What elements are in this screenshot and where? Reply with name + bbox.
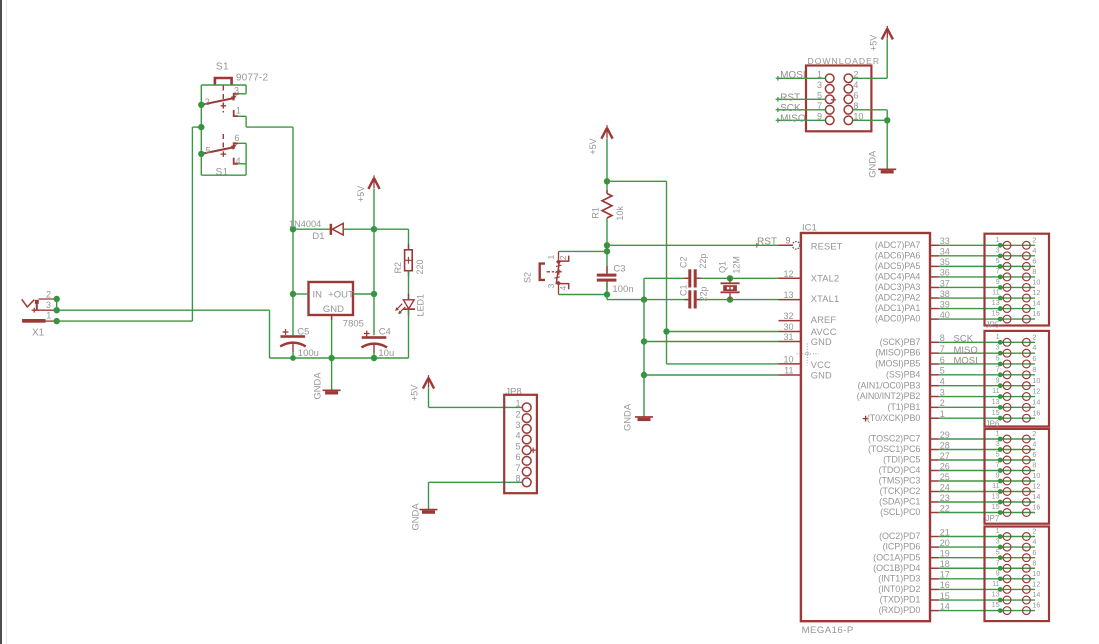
svg-text:3: 3 — [996, 537, 1000, 546]
svg-text:29: 29 — [940, 430, 950, 440]
svg-text:32: 32 — [783, 311, 793, 321]
svg-text:8: 8 — [940, 333, 945, 343]
svg-text:(AIN0/INT2)PB2: (AIN0/INT2)PB2 — [857, 391, 921, 401]
svg-text:C3: C3 — [613, 264, 625, 275]
svg-text:(SDA)PC1: (SDA)PC1 — [879, 497, 920, 507]
svg-text:22p: 22p — [699, 286, 709, 301]
svg-text:(ADC3)PA3: (ADC3)PA3 — [875, 282, 921, 292]
svg-text:36: 36 — [940, 268, 950, 278]
svg-text:13: 13 — [992, 397, 1000, 406]
svg-text:3: 3 — [996, 245, 1000, 254]
svg-text:7: 7 — [996, 364, 1000, 373]
svg-text:GND: GND — [811, 337, 832, 347]
svg-text:DOWNLOADER: DOWNLOADER — [808, 56, 881, 66]
svg-text:4: 4 — [558, 286, 568, 291]
svg-text:(TMS)PC3: (TMS)PC3 — [879, 476, 921, 486]
svg-text:11: 11 — [992, 288, 999, 297]
svg-text:+OUT: +OUT — [328, 289, 354, 300]
svg-text:2: 2 — [46, 289, 51, 299]
svg-text:12: 12 — [1032, 288, 1040, 297]
svg-text:3: 3 — [817, 80, 822, 90]
svg-text:13: 13 — [992, 298, 1000, 307]
svg-text:(TCK)PC2: (TCK)PC2 — [880, 486, 921, 496]
svg-text:+5V: +5V — [588, 138, 598, 154]
svg-text:7: 7 — [996, 558, 1000, 567]
svg-text:22: 22 — [940, 503, 950, 513]
svg-text:(ADC0)PA0: (ADC0)PA0 — [875, 314, 921, 324]
svg-text:(TDI)PC5: (TDI)PC5 — [883, 455, 920, 465]
svg-text:23: 23 — [940, 493, 950, 503]
svg-text:(ICP)PD6: (ICP)PD6 — [883, 542, 921, 552]
svg-text:AREF: AREF — [811, 315, 837, 325]
svg-text:GND: GND — [323, 304, 344, 315]
svg-text:14: 14 — [1032, 492, 1040, 501]
svg-text:RST: RST — [757, 237, 777, 248]
svg-text:C1: C1 — [679, 284, 689, 296]
svg-text:JP5: JP5 — [986, 321, 1000, 330]
svg-text:X1: X1 — [32, 328, 45, 339]
svg-text:7: 7 — [515, 463, 520, 473]
svg-text:S1: S1 — [216, 167, 229, 178]
svg-text:4: 4 — [1032, 343, 1036, 352]
svg-text:(INT0)PD2: (INT0)PD2 — [878, 584, 920, 594]
svg-text:2: 2 — [515, 409, 520, 419]
svg-text:30: 30 — [783, 322, 793, 332]
svg-text:VCC: VCC — [811, 360, 831, 370]
svg-text:10k: 10k — [615, 206, 625, 221]
svg-text:2: 2 — [1032, 527, 1036, 536]
svg-text:(TOSC2)PC7: (TOSC2)PC7 — [868, 434, 920, 444]
svg-text:S2: S2 — [523, 272, 533, 283]
svg-text:MOSI: MOSI — [780, 70, 806, 81]
svg-text:6: 6 — [235, 133, 240, 143]
svg-text:GND: GND — [811, 370, 832, 380]
svg-text:8: 8 — [1032, 267, 1036, 276]
svg-text:GNDA: GNDA — [312, 372, 323, 400]
svg-text:8: 8 — [1032, 558, 1036, 567]
svg-text:C2: C2 — [679, 256, 689, 268]
svg-text:4: 4 — [515, 431, 520, 441]
svg-text:28: 28 — [940, 440, 950, 450]
svg-text:40: 40 — [940, 310, 950, 320]
svg-text:13: 13 — [783, 290, 793, 300]
svg-text:16: 16 — [1032, 408, 1040, 417]
svg-text:4: 4 — [940, 376, 945, 386]
svg-text:1: 1 — [940, 409, 945, 419]
svg-text:19: 19 — [940, 548, 950, 558]
svg-text:4: 4 — [1032, 246, 1036, 255]
svg-text:5: 5 — [996, 256, 1000, 265]
svg-text:MOSI: MOSI — [954, 355, 978, 366]
svg-text:11: 11 — [992, 579, 999, 588]
svg-text:(ADC7)PA7: (ADC7)PA7 — [875, 240, 921, 250]
svg-text:15: 15 — [940, 591, 950, 601]
svg-text:(T1)PB1: (T1)PB1 — [887, 402, 920, 412]
svg-text:25: 25 — [940, 472, 950, 482]
svg-text:6: 6 — [1032, 450, 1036, 459]
svg-text:7805: 7805 — [343, 318, 364, 329]
svg-text:12: 12 — [1032, 482, 1040, 491]
svg-text:2: 2 — [1032, 429, 1036, 438]
svg-text:26: 26 — [940, 461, 950, 471]
svg-text:+5V: +5V — [409, 385, 419, 401]
svg-text:220: 220 — [415, 259, 425, 274]
svg-text:R2: R2 — [393, 262, 403, 274]
svg-text:20: 20 — [940, 538, 950, 548]
svg-text:+5V: +5V — [356, 186, 366, 202]
svg-text:13: 13 — [992, 492, 1000, 501]
svg-text:15: 15 — [992, 600, 1000, 609]
svg-text:3: 3 — [515, 420, 520, 430]
svg-text:14: 14 — [940, 601, 950, 611]
svg-text:3: 3 — [996, 439, 1000, 448]
svg-text:GNDA: GNDA — [409, 503, 420, 531]
svg-text:10u: 10u — [378, 348, 394, 359]
svg-text:(SS)PB4: (SS)PB4 — [886, 369, 920, 379]
svg-text:14: 14 — [1032, 299, 1040, 308]
svg-text:SCK: SCK — [780, 103, 801, 114]
svg-text:5: 5 — [515, 441, 520, 451]
svg-text:15: 15 — [992, 309, 1000, 318]
svg-text:MEGA16-P: MEGA16-P — [802, 625, 854, 636]
svg-text:34: 34 — [940, 247, 950, 257]
svg-text:12M: 12M — [732, 256, 742, 274]
svg-text:10: 10 — [783, 354, 793, 364]
svg-text:(OC1A)PD5: (OC1A)PD5 — [873, 552, 920, 562]
svg-text:(T0/XCK)PB0: (T0/XCK)PB0 — [867, 413, 921, 423]
svg-text:12: 12 — [1032, 387, 1040, 396]
svg-text:JP7: JP7 — [986, 514, 1000, 523]
svg-text:5: 5 — [996, 354, 1000, 363]
svg-text:(ADC6)PA6: (ADC6)PA6 — [875, 250, 921, 260]
svg-text:12: 12 — [1032, 580, 1040, 589]
svg-text:AVCC: AVCC — [811, 327, 837, 337]
svg-text:1: 1 — [515, 399, 520, 409]
svg-text:(AIN1/OC0)PB3: (AIN1/OC0)PB3 — [858, 380, 921, 390]
svg-text:9: 9 — [996, 375, 1000, 384]
svg-text:15: 15 — [992, 502, 1000, 511]
svg-text:100n: 100n — [612, 284, 633, 295]
svg-text:3: 3 — [234, 86, 239, 96]
svg-text:C4: C4 — [379, 327, 391, 338]
svg-text:MISO: MISO — [780, 113, 806, 124]
svg-text:2: 2 — [1032, 235, 1036, 244]
svg-text:6: 6 — [853, 90, 858, 100]
svg-text:5: 5 — [996, 450, 1000, 459]
svg-text:1: 1 — [236, 106, 241, 116]
svg-text:15: 15 — [992, 408, 1000, 417]
svg-text:5: 5 — [996, 547, 1000, 556]
svg-text:10: 10 — [1032, 471, 1040, 480]
svg-text:13: 13 — [992, 590, 1000, 599]
svg-text:8: 8 — [515, 474, 520, 484]
svg-text:LED1: LED1 — [416, 294, 426, 317]
svg-text:3: 3 — [940, 387, 945, 397]
svg-text:(RXD)PD0: (RXD)PD0 — [879, 605, 921, 615]
svg-text:9077-2: 9077-2 — [236, 73, 269, 84]
svg-text:XTAL2: XTAL2 — [811, 274, 840, 284]
svg-text:2: 2 — [1032, 332, 1036, 341]
svg-text:MISO: MISO — [954, 345, 978, 356]
svg-text:(TOSC1)PC6: (TOSC1)PC6 — [868, 444, 920, 454]
svg-text:11: 11 — [784, 366, 793, 376]
svg-text:(MISO)PB6: (MISO)PB6 — [875, 348, 920, 358]
svg-text:(TXD)PD1: (TXD)PD1 — [880, 595, 921, 605]
svg-text:100u: 100u — [298, 348, 319, 359]
svg-text:10: 10 — [1032, 376, 1040, 385]
svg-text:(INT1)PD3: (INT1)PD3 — [878, 573, 920, 583]
svg-text:(SCK)PB7: (SCK)PB7 — [880, 337, 921, 347]
svg-text:1N4004: 1N4004 — [289, 219, 321, 229]
svg-text:11: 11 — [992, 386, 999, 395]
svg-text:6: 6 — [1032, 548, 1036, 557]
svg-text:+5V: +5V — [868, 35, 878, 51]
svg-text:16: 16 — [1032, 601, 1040, 610]
svg-text:16: 16 — [1032, 309, 1040, 318]
svg-text:31: 31 — [783, 332, 793, 342]
svg-text:27: 27 — [940, 451, 950, 461]
svg-text:(ADC1)PA1: (ADC1)PA1 — [875, 303, 921, 313]
svg-text:38: 38 — [940, 289, 950, 299]
svg-text:GNDA: GNDA — [867, 150, 878, 178]
svg-text:6: 6 — [1032, 256, 1036, 265]
svg-text:(ADC2)PA2: (ADC2)PA2 — [875, 293, 921, 303]
svg-text:6: 6 — [1032, 354, 1036, 363]
svg-text:2: 2 — [205, 97, 210, 107]
svg-text:1: 1 — [46, 311, 51, 321]
svg-text:35: 35 — [940, 257, 950, 267]
svg-text:14: 14 — [1032, 590, 1040, 599]
svg-text:7: 7 — [996, 460, 1000, 469]
svg-text:R1: R1 — [591, 207, 601, 219]
svg-text:RESET: RESET — [811, 242, 843, 252]
svg-text:Q1: Q1 — [717, 261, 727, 273]
svg-text:8: 8 — [1032, 365, 1036, 374]
svg-text:12: 12 — [783, 269, 793, 279]
svg-text:(ADC5)PA5: (ADC5)PA5 — [875, 261, 921, 271]
svg-text:2: 2 — [558, 255, 568, 260]
svg-text:JP6: JP6 — [986, 420, 1000, 429]
svg-text:10: 10 — [1032, 569, 1040, 578]
svg-text:5: 5 — [206, 146, 211, 156]
svg-text:(SCL)PC0: (SCL)PC0 — [880, 507, 920, 517]
svg-text:1: 1 — [996, 235, 1000, 244]
svg-text:7: 7 — [940, 344, 945, 354]
svg-text:8: 8 — [1032, 461, 1036, 470]
svg-text:S1: S1 — [216, 62, 229, 73]
svg-text:(ADC4)PA4: (ADC4)PA4 — [875, 272, 921, 282]
svg-text:37: 37 — [940, 278, 950, 288]
svg-text:GNDA: GNDA — [622, 403, 633, 431]
svg-text:(MOSI)PB5: (MOSI)PB5 — [875, 359, 920, 369]
svg-text:39: 39 — [940, 299, 950, 309]
svg-text:24: 24 — [940, 482, 950, 492]
svg-text:4: 4 — [236, 156, 241, 166]
svg-text:9: 9 — [785, 236, 790, 246]
svg-text:(OC1B)PD4: (OC1B)PD4 — [873, 563, 920, 573]
svg-text:1: 1 — [546, 255, 556, 260]
svg-text:16: 16 — [1032, 503, 1040, 512]
svg-text:D1: D1 — [312, 231, 324, 242]
svg-text:3: 3 — [996, 343, 1000, 352]
svg-text:14: 14 — [1032, 397, 1040, 406]
svg-text:1: 1 — [996, 332, 1000, 341]
svg-text:33: 33 — [940, 236, 950, 246]
svg-text:18: 18 — [940, 559, 950, 569]
svg-text:(OC2)PD7: (OC2)PD7 — [879, 531, 920, 541]
svg-text:7: 7 — [996, 267, 1000, 276]
svg-text:21: 21 — [940, 527, 950, 537]
svg-text:10: 10 — [1032, 278, 1040, 287]
svg-text:3: 3 — [546, 283, 556, 288]
svg-text:11: 11 — [992, 481, 999, 490]
svg-text:4: 4 — [1032, 440, 1036, 449]
svg-text:5: 5 — [940, 366, 945, 376]
svg-text:9: 9 — [996, 471, 1000, 480]
svg-text:SCK: SCK — [954, 334, 974, 345]
svg-text:16: 16 — [940, 580, 950, 590]
svg-text:C5: C5 — [297, 327, 309, 338]
svg-text:22p: 22p — [698, 254, 708, 269]
svg-text:6: 6 — [515, 452, 520, 462]
svg-text:(TDO)PC4: (TDO)PC4 — [879, 465, 921, 475]
svg-text:IN: IN — [313, 289, 323, 300]
svg-text:6: 6 — [940, 355, 945, 365]
svg-text:17: 17 — [940, 570, 950, 580]
svg-text:4: 4 — [853, 80, 858, 90]
svg-text:XTAL1: XTAL1 — [811, 294, 840, 304]
svg-text:3: 3 — [46, 300, 51, 310]
svg-text:9: 9 — [996, 277, 1000, 286]
svg-text:2: 2 — [940, 398, 945, 408]
svg-text:4: 4 — [1032, 537, 1036, 546]
svg-text:9: 9 — [996, 568, 1000, 577]
